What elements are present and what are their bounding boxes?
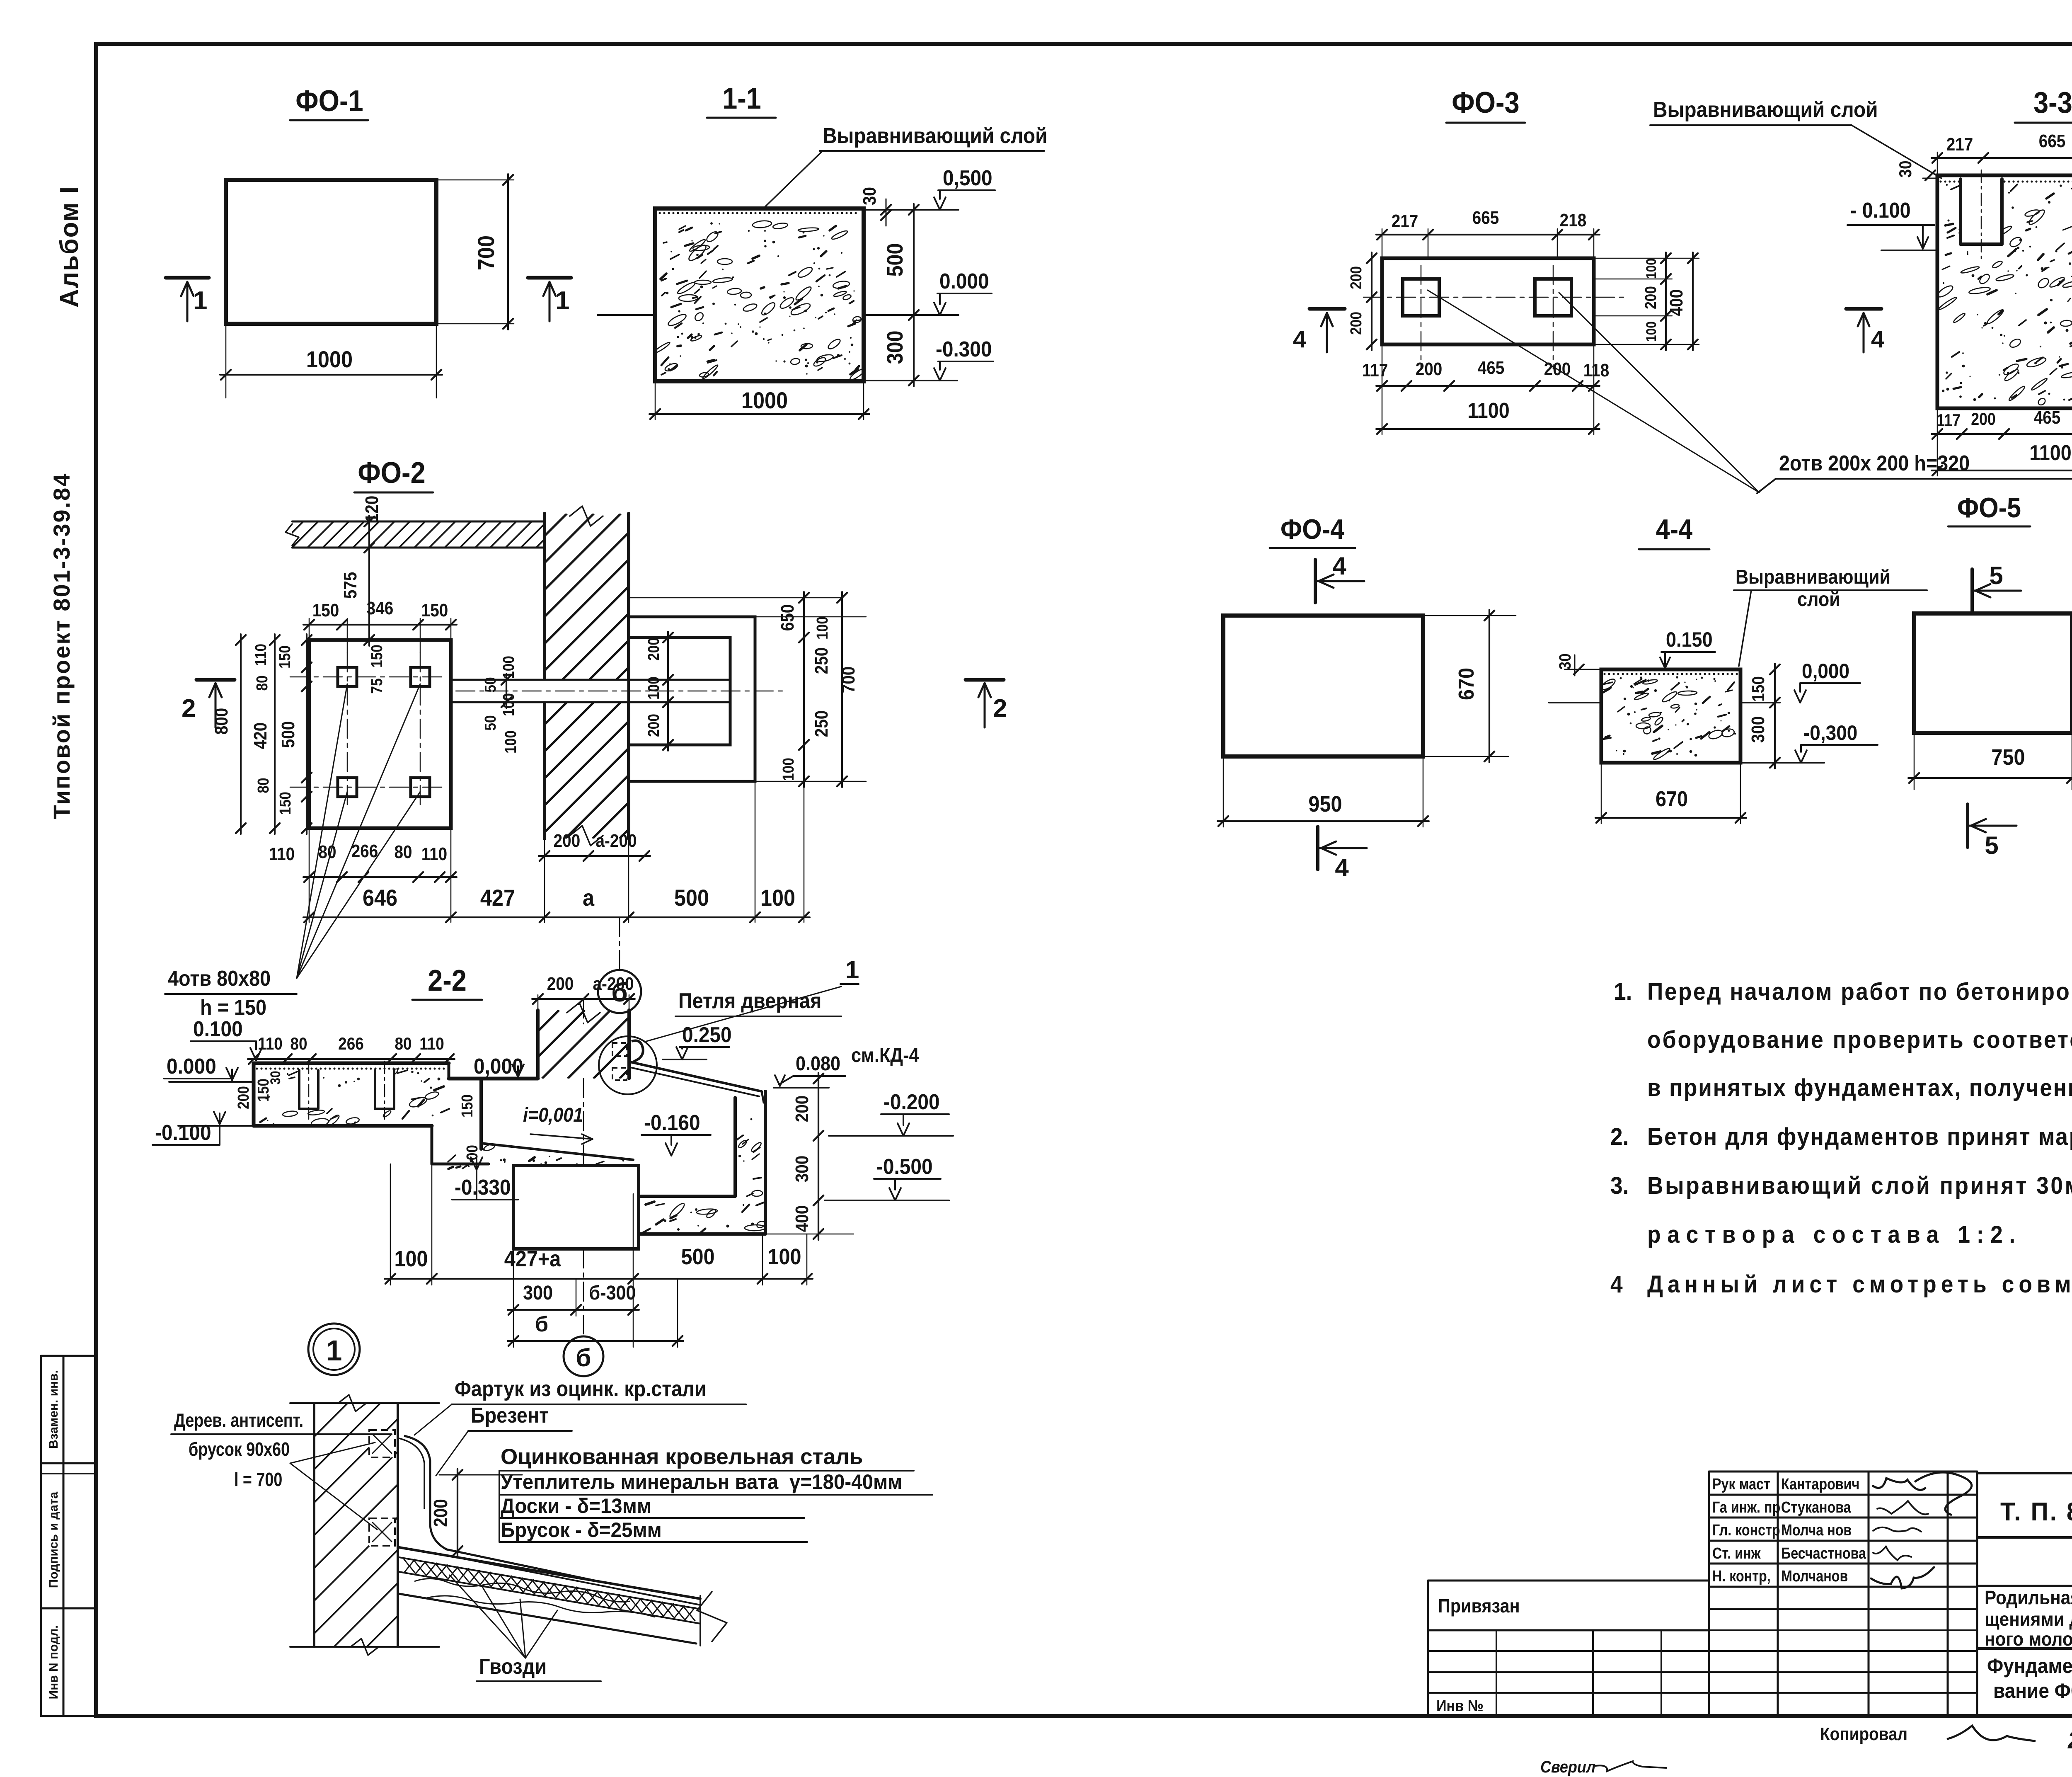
svg-text:650: 650 <box>777 604 798 631</box>
svg-text:670: 670 <box>1455 668 1479 700</box>
svg-text:Рук маст: Рук маст <box>1712 1476 1770 1493</box>
svg-text:200: 200 <box>1347 312 1365 335</box>
svg-text:раствора состава 1:2.: раствора состава 1:2. <box>1647 1221 2022 1248</box>
svg-text:Перед началом работ по бето: Перед началом работ по бетонированию фун… <box>1647 978 2072 1005</box>
svg-text:a-200: a-200 <box>596 830 637 851</box>
svg-text:ФО-2: ФО-2 <box>358 456 425 490</box>
svg-text:117: 117 <box>1936 411 1961 430</box>
svg-text:200: 200 <box>431 1499 452 1527</box>
svg-text:Н. контр,: Н. контр, <box>1712 1568 1771 1585</box>
svg-text:200: 200 <box>645 714 662 737</box>
svg-text:Родильная на 25 коров с поме-: Родильная на 25 коров с поме- <box>1985 1587 2072 1608</box>
svg-text:50: 50 <box>482 715 499 730</box>
svg-text:см.КД-4: см.КД-4 <box>851 1044 919 1067</box>
svg-text:Данный лист смотреть совмес: Данный лист смотреть совместно с КЖ-4. <box>1647 1271 2072 1298</box>
svg-text:346: 346 <box>367 598 394 618</box>
svg-text:110: 110 <box>421 844 447 864</box>
svg-text:-0.300: -0.300 <box>936 337 992 361</box>
svg-text:500: 500 <box>278 721 298 748</box>
svg-text:γ=180-40мм: γ=180-40мм <box>789 1471 902 1493</box>
svg-text:80: 80 <box>290 1034 307 1054</box>
svg-text:300: 300 <box>1748 716 1768 743</box>
svg-text:Гл. констр: Гл. констр <box>1712 1522 1780 1539</box>
svg-text:1000: 1000 <box>306 347 353 373</box>
svg-text:Бетон для фундаментов приня: Бетон для фундаментов принят марки „150” <box>1647 1123 2072 1150</box>
svg-text:-0.200: -0.200 <box>884 1090 940 1114</box>
svg-text:Подпись и дата: Подпись и дата <box>47 1491 61 1588</box>
svg-text:2: 2 <box>993 694 1007 723</box>
svg-text:200: 200 <box>1642 286 1659 309</box>
svg-text:100: 100 <box>760 885 795 911</box>
svg-text:150: 150 <box>458 1094 476 1118</box>
svg-text:l = 700: l = 700 <box>234 1469 282 1490</box>
svg-text:б: б <box>535 1312 548 1336</box>
svg-text:Взамен. инв.: Взамен. инв. <box>47 1370 61 1449</box>
svg-text:0.000: 0.000 <box>939 269 989 293</box>
svg-text:Инв №: Инв № <box>1436 1697 1484 1714</box>
svg-text:Петля дверная: Петля дверная <box>678 989 821 1013</box>
svg-text:80: 80 <box>394 841 412 862</box>
svg-text:465: 465 <box>2034 407 2061 428</box>
svg-text:30: 30 <box>859 187 879 205</box>
svg-text:Доски - δ=13мм: Доски - δ=13мм <box>501 1495 651 1518</box>
svg-text:100: 100 <box>813 616 831 640</box>
svg-text:0,500: 0,500 <box>943 166 992 190</box>
svg-text:80: 80 <box>395 1034 411 1054</box>
svg-text:700: 700 <box>838 667 859 693</box>
svg-text:700: 700 <box>474 235 499 270</box>
svg-text:218: 218 <box>1560 210 1587 230</box>
svg-text:500: 500 <box>882 243 908 276</box>
svg-text:20233-01: 20233-01 <box>2067 1726 2072 1753</box>
svg-text:2.: 2. <box>1610 1123 1629 1150</box>
svg-text:Типовой проект 801-3-39.84: Типовой проект 801-3-39.84 <box>48 473 75 819</box>
svg-text:5: 5 <box>1989 562 2003 589</box>
svg-text:Сверил: Сверил <box>1540 1758 1595 1776</box>
svg-text:110: 110 <box>419 1034 444 1054</box>
svg-text:ФО-3: ФО-3 <box>1452 86 1519 119</box>
svg-text:100: 100 <box>394 1246 428 1271</box>
svg-text:Стуканова: Стуканова <box>1781 1499 1851 1516</box>
svg-text:150: 150 <box>368 645 385 668</box>
svg-text:250: 250 <box>811 710 832 737</box>
svg-text:оборудование проверить соотв: оборудование проверить соответствие разб… <box>1647 1026 2072 1053</box>
svg-text:100: 100 <box>500 656 517 679</box>
svg-text:Выравнивающий слой: Выравнивающий слой <box>1653 97 1878 121</box>
svg-text:300: 300 <box>882 330 908 364</box>
svg-text:3.: 3. <box>1610 1172 1629 1199</box>
svg-text:75: 75 <box>368 678 385 693</box>
svg-text:Бесчастнова: Бесчастнова <box>1781 1545 1866 1562</box>
svg-text:4отв 80х80: 4отв 80х80 <box>168 967 271 991</box>
svg-text:Кантарович: Кантарович <box>1781 1476 1859 1493</box>
svg-text:750: 750 <box>1991 744 2025 770</box>
svg-text:665: 665 <box>1472 207 1499 228</box>
svg-text:Молчанов: Молчанов <box>1781 1568 1848 1585</box>
svg-text:-0.330: -0.330 <box>455 1175 511 1199</box>
svg-text:150: 150 <box>1749 676 1768 702</box>
svg-text:217: 217 <box>1946 134 1973 155</box>
svg-text:200: 200 <box>1347 266 1365 289</box>
svg-text:4: 4 <box>1332 552 1346 580</box>
svg-text:0.080: 0.080 <box>796 1052 840 1075</box>
svg-text:Молча нов: Молча нов <box>1781 1522 1852 1539</box>
svg-text:1100: 1100 <box>1467 399 1510 423</box>
svg-text:i=0,001: i=0,001 <box>523 1104 583 1126</box>
svg-text:110: 110 <box>252 644 269 666</box>
svg-text:100: 100 <box>779 758 797 781</box>
svg-text:100: 100 <box>645 676 662 700</box>
svg-text:Ст. инж: Ст. инж <box>1712 1545 1761 1562</box>
svg-text:400: 400 <box>792 1205 812 1232</box>
svg-text:4: 4 <box>1293 326 1306 353</box>
svg-text:427: 427 <box>480 885 515 911</box>
svg-text:500: 500 <box>674 885 709 911</box>
svg-text:100: 100 <box>1643 258 1659 279</box>
svg-text:266: 266 <box>351 841 378 861</box>
svg-text:217: 217 <box>1392 211 1418 231</box>
svg-text:вание ФО-1 ÷ ФО-5: вание ФО-1 ÷ ФО-5 <box>1993 1680 2072 1702</box>
svg-text:4: 4 <box>1871 326 1884 353</box>
svg-text:100: 100 <box>502 730 519 754</box>
svg-text:100: 100 <box>1643 321 1659 342</box>
svg-text:0.100: 0.100 <box>193 1017 243 1041</box>
svg-text:665: 665 <box>2039 131 2066 151</box>
svg-text:1000: 1000 <box>741 388 788 414</box>
svg-text:2: 2 <box>182 694 196 723</box>
svg-text:-0.500: -0.500 <box>876 1154 933 1178</box>
svg-text:30: 30 <box>1896 160 1915 177</box>
svg-text:0.000: 0.000 <box>167 1054 216 1078</box>
svg-text:2-2: 2-2 <box>428 964 467 997</box>
svg-text:Фартук из оцинк. кр.стали: Фартук из оцинк. кр.стали <box>455 1377 707 1401</box>
svg-text:50: 50 <box>482 677 499 692</box>
svg-text:800: 800 <box>211 708 232 735</box>
svg-text:Т. П. 801-3-39.84: Т. П. 801-3-39.84 <box>2000 1497 2072 1526</box>
svg-text:ного молодняка на 220голов: ного молодняка на 220голов <box>1985 1629 2072 1650</box>
svg-text:118: 118 <box>1583 360 1609 381</box>
svg-text:266: 266 <box>338 1034 364 1054</box>
svg-text:100: 100 <box>767 1244 801 1269</box>
svg-text:30: 30 <box>1556 653 1574 669</box>
svg-text:Альбом I: Альбом I <box>55 186 84 308</box>
svg-text:a-200: a-200 <box>593 973 634 994</box>
svg-text:Фундаменты под, оборудо-: Фундаменты под, оборудо- <box>1987 1655 2072 1678</box>
svg-text:427+a: 427+a <box>504 1246 561 1271</box>
svg-text:4-4: 4-4 <box>1656 513 1692 545</box>
svg-text:465: 465 <box>1478 357 1505 378</box>
svg-text:Инв N подл.: Инв N подл. <box>47 1625 61 1699</box>
svg-text:0,000: 0,000 <box>474 1054 523 1078</box>
svg-text:Выравнивающий слой принят 3: Выравнивающий слой принят 30мм из цемент… <box>1647 1172 2072 1199</box>
svg-text:3-3: 3-3 <box>2033 86 2072 119</box>
svg-text:200: 200 <box>554 830 581 851</box>
svg-text:1.: 1. <box>1614 978 1632 1005</box>
svg-text:0.150: 0.150 <box>1666 628 1713 652</box>
svg-text:h = 150: h = 150 <box>200 996 266 1020</box>
svg-text:500: 500 <box>681 1244 714 1269</box>
svg-text:-0.100: -0.100 <box>155 1120 211 1144</box>
svg-text:300: 300 <box>523 1282 553 1304</box>
svg-text:420: 420 <box>250 722 271 749</box>
svg-text:150: 150 <box>312 600 339 621</box>
svg-text:щениями для телят и ремонт-: щениями для телят и ремонт- <box>1985 1609 2072 1630</box>
svg-text:100: 100 <box>463 1145 481 1168</box>
svg-text:300: 300 <box>792 1156 812 1183</box>
svg-text:Дерев. антисепт.: Дерев. антисепт. <box>174 1409 303 1430</box>
svg-text:a: a <box>583 885 594 911</box>
svg-text:100: 100 <box>500 693 517 716</box>
svg-text:200: 200 <box>645 638 662 661</box>
svg-text:Га инж. пр: Га инж. пр <box>1712 1499 1780 1516</box>
svg-text:1: 1 <box>845 956 859 984</box>
svg-text:Копировал: Копировал <box>1820 1724 1907 1744</box>
svg-text:110: 110 <box>269 844 295 864</box>
svg-text:Брезент: Брезент <box>471 1404 549 1428</box>
svg-text:Выравнивающий слой: Выравнивающий слой <box>823 124 1048 148</box>
svg-text:-0.160: -0.160 <box>644 1110 700 1135</box>
svg-text:117: 117 <box>1362 360 1388 381</box>
svg-text:слой: слой <box>1797 588 1840 611</box>
svg-text:200: 200 <box>1971 410 1996 429</box>
svg-text:4: 4 <box>1335 854 1349 882</box>
svg-text:200: 200 <box>792 1096 812 1122</box>
svg-text:1: 1 <box>555 286 569 315</box>
svg-text:- 0.100: - 0.100 <box>1850 199 1911 223</box>
svg-text:670: 670 <box>1656 787 1688 811</box>
svg-text:ФО-1: ФО-1 <box>295 84 363 118</box>
svg-text:б: б <box>576 1344 591 1372</box>
svg-text:б-300: б-300 <box>589 1282 636 1304</box>
svg-text:575: 575 <box>340 572 361 599</box>
svg-text:Оцинкованная кровельная стал: Оцинкованная кровельная сталь <box>501 1445 863 1469</box>
svg-text:150: 150 <box>276 792 294 815</box>
svg-text:Утеплитель минеральн вата: Утеплитель минеральн вата <box>501 1471 779 1493</box>
svg-text:1: 1 <box>193 286 207 315</box>
svg-text:Привязан: Привязан <box>1438 1595 1520 1617</box>
svg-text:1-1: 1-1 <box>722 82 761 115</box>
svg-text:Выравнивающий: Выравнивающий <box>1736 566 1890 588</box>
svg-text:1: 1 <box>326 1334 342 1367</box>
svg-text:200: 200 <box>1416 359 1443 379</box>
svg-text:200: 200 <box>235 1086 252 1109</box>
svg-text:80: 80 <box>254 778 272 793</box>
svg-text:150: 150 <box>276 645 293 669</box>
svg-text:400: 400 <box>1666 289 1687 316</box>
svg-text:ФО-4: ФО-4 <box>1280 513 1344 545</box>
svg-text:150: 150 <box>421 600 448 621</box>
svg-text:ФО-5: ФО-5 <box>1957 492 2021 524</box>
svg-text:1100: 1100 <box>2029 441 2072 465</box>
svg-text:2отв 200х 200 h=320: 2отв 200х 200 h=320 <box>1779 451 1970 475</box>
svg-text:брусок 90х60: брусок 90х60 <box>189 1438 290 1459</box>
svg-text:Брусок - δ=25мм: Брусок - δ=25мм <box>501 1519 662 1542</box>
svg-text:250: 250 <box>811 647 832 674</box>
svg-text:200: 200 <box>547 973 574 994</box>
svg-text:4: 4 <box>1610 1271 1623 1298</box>
svg-text:0,000: 0,000 <box>1802 660 1849 683</box>
svg-text:30: 30 <box>267 1071 283 1084</box>
svg-text:950: 950 <box>1308 791 1342 817</box>
svg-text:80: 80 <box>253 675 271 691</box>
svg-text:Гвозди: Гвозди <box>479 1655 547 1679</box>
svg-text:в принятых фундаментах, получ: в принятых фундаментах, полученному обор… <box>1647 1074 2072 1101</box>
svg-text:-0,300: -0,300 <box>1803 722 1857 744</box>
svg-text:646: 646 <box>363 885 397 911</box>
svg-text:0.250: 0.250 <box>682 1023 732 1047</box>
svg-text:5: 5 <box>1985 832 1998 859</box>
